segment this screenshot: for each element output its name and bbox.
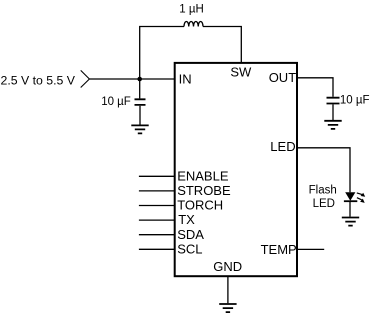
svg-text:IN: IN	[179, 72, 192, 87]
svg-text:STROBE: STROBE	[177, 183, 231, 198]
svg-text:TEMP: TEMP	[261, 242, 297, 257]
svg-text:1 µH: 1 µH	[179, 3, 204, 15]
svg-text:TX: TX	[178, 212, 195, 227]
svg-text:LED: LED	[313, 198, 335, 210]
svg-text:SW: SW	[230, 65, 252, 80]
svg-text:GND: GND	[213, 259, 242, 274]
svg-text:2.5 V to 5.5 V: 2.5 V to 5.5 V	[1, 73, 76, 87]
svg-text:ENABLE: ENABLE	[177, 168, 229, 183]
svg-text:Flash: Flash	[309, 185, 337, 197]
svg-text:SDA: SDA	[177, 227, 204, 242]
svg-text:TORCH: TORCH	[177, 198, 223, 213]
svg-text:10 µF: 10 µF	[101, 96, 131, 108]
svg-text:LED: LED	[270, 139, 295, 154]
svg-text:10 µF: 10 µF	[340, 94, 370, 106]
svg-text:SCL: SCL	[177, 241, 202, 256]
svg-text:OUT: OUT	[269, 70, 297, 85]
